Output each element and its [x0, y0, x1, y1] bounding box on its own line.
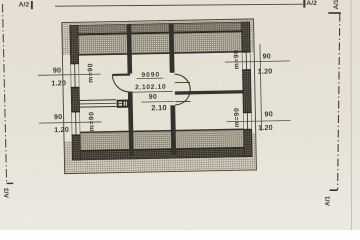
interior wall A lower segment — [128, 92, 134, 156]
left wall segment lower — [72, 135, 80, 160]
interior top boundary line — [78, 52, 242, 55]
door D1 swing arc — [112, 75, 130, 93]
door label underline 3 — [141, 101, 174, 104]
section mark A/2 right bar — [303, 0, 305, 8]
sheet top border line — [55, 4, 303, 6]
left wall segment upper — [70, 25, 79, 63]
window W1 right: glass line — [245, 52, 247, 70]
interior bottom boundary line — [80, 129, 244, 132]
window W1 left: glass line — [74, 64, 76, 88]
eaves outline — [62, 19, 257, 174]
dimension extension line right — [260, 44, 262, 131]
roof overhang hatch: right flank upper — [250, 22, 255, 53]
roof overhang hatch: left flank lower — [64, 141, 72, 160]
sheet right edge line — [350, 0, 353, 230]
interior wall A upper segment — [127, 25, 133, 74]
partition wall right room — [175, 90, 243, 95]
window W2 right: jamb caps — [243, 111, 252, 113]
wall bottom band — [72, 148, 252, 160]
interior wall B lower segment — [170, 105, 176, 154]
interior sloped-ceiling hatch: top strip — [78, 32, 242, 55]
window W2 right: face lines — [242, 113, 244, 130]
window W2 left: face lines — [71, 112, 73, 135]
wall plate line top — [70, 31, 250, 34]
window W1 right: jamb caps — [242, 51, 251, 53]
door D2 leaf upper — [175, 81, 190, 83]
door D1 leaf (wall A) — [112, 74, 130, 76]
partition left room line 2 — [79, 102, 116, 105]
interior sloped-ceiling hatch: bottom strip — [80, 129, 244, 151]
dimension line window W2 right — [227, 120, 291, 121]
window W1 left: face lines — [70, 64, 72, 88]
door D2 swing arc (wall B, semicircle) — [175, 74, 191, 105]
dimension line window W1 right — [225, 61, 290, 62]
section line A/3 (left dash-dot) — [3, 4, 7, 183]
interior wall B upper segment — [169, 24, 175, 73]
partition left room line 3 — [79, 105, 116, 108]
chimney block — [117, 99, 130, 107]
roof overhang hatch: left flank upper — [62, 25, 71, 55]
door D2 leaf lower — [175, 100, 190, 102]
section line A/1 (right dash-dot) — [338, 14, 340, 191]
right wall segment middle — [243, 70, 252, 113]
roof overhang hatch: top strip — [62, 19, 254, 25]
window W2 left: jamb caps — [71, 111, 80, 113]
window W1 left: jamb caps — [70, 62, 79, 64]
dimension line window W1 left — [38, 74, 100, 75]
section mark A/3 tick — [7, 182, 14, 184]
right wall segment lower — [244, 129, 253, 156]
door label underline 2 — [132, 90, 173, 93]
section line A/1 top tick — [328, 12, 341, 14]
section mark A/2 left bar — [31, 1, 33, 9]
left wall segment middle — [71, 87, 79, 111]
partition left room line 1 — [79, 99, 116, 102]
door label underline 1 — [137, 77, 164, 80]
window W2 left: glass line — [75, 112, 77, 135]
right wall segment upper — [242, 22, 251, 52]
window W2 right: glass line — [246, 113, 248, 130]
roof overhang hatch: bottom strip — [64, 156, 256, 173]
window W1 right: face lines — [241, 52, 243, 70]
section mark A/1 bottom tick — [330, 189, 338, 191]
dimension line window W2 left — [39, 122, 101, 123]
wall plate line bottom — [72, 148, 252, 151]
roof overhang hatch: right flank lower — [252, 133, 256, 156]
wall top band — [70, 22, 250, 34]
